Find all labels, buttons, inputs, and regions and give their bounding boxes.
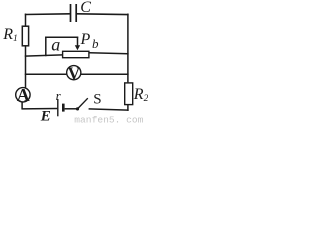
wire slider vertical left: [45, 37, 47, 57]
svg-text:manfen5. com: manfen5. com: [74, 115, 143, 126]
capacitor C: [71, 4, 77, 22]
svg-text:b: b: [92, 36, 99, 51]
resistor R2: [125, 83, 133, 105]
slider arrowhead P: [75, 45, 80, 50]
wire slider stem: [77, 37, 79, 47]
svg-text:V: V: [68, 63, 81, 83]
wire bottom right: [89, 109, 129, 110]
wire slider horizontal: [45, 36, 78, 38]
wire below ammeter: [21, 102, 23, 109]
resistor R1: [22, 26, 28, 46]
switch S blade: [78, 98, 88, 109]
wire bottom left: [22, 108, 58, 110]
svg-text:S: S: [93, 92, 101, 108]
switch contact dot: [76, 107, 79, 110]
wire voltmeter right: [81, 73, 129, 75]
svg-text:R1: R1: [2, 26, 18, 44]
battery E short plate: [62, 104, 65, 112]
wire top left: [25, 13, 70, 16]
wire branch to voltmeter: [25, 73, 67, 75]
svg-text:R2: R2: [133, 86, 148, 104]
voltmeter V: [67, 66, 81, 80]
svg-text:r: r: [56, 88, 62, 103]
wire left rail middle: [25, 46, 27, 88]
ammeter A: [16, 88, 30, 102]
wire right rail lower stub: [127, 105, 129, 111]
potentiometer box: [63, 51, 89, 57]
battery E long plate: [57, 99, 59, 116]
wire left rail upper: [25, 14, 27, 27]
wire potentiometer right: [89, 53, 128, 54]
wire branch to potentiometer: [25, 55, 63, 56]
wire top right: [77, 13, 129, 16]
svg-text:P: P: [80, 31, 91, 48]
wire battery to switch: [65, 108, 77, 110]
svg-text:a: a: [51, 35, 60, 55]
svg-text:A: A: [17, 85, 30, 105]
svg-text:E: E: [40, 109, 51, 125]
wire right rail: [127, 14, 129, 83]
